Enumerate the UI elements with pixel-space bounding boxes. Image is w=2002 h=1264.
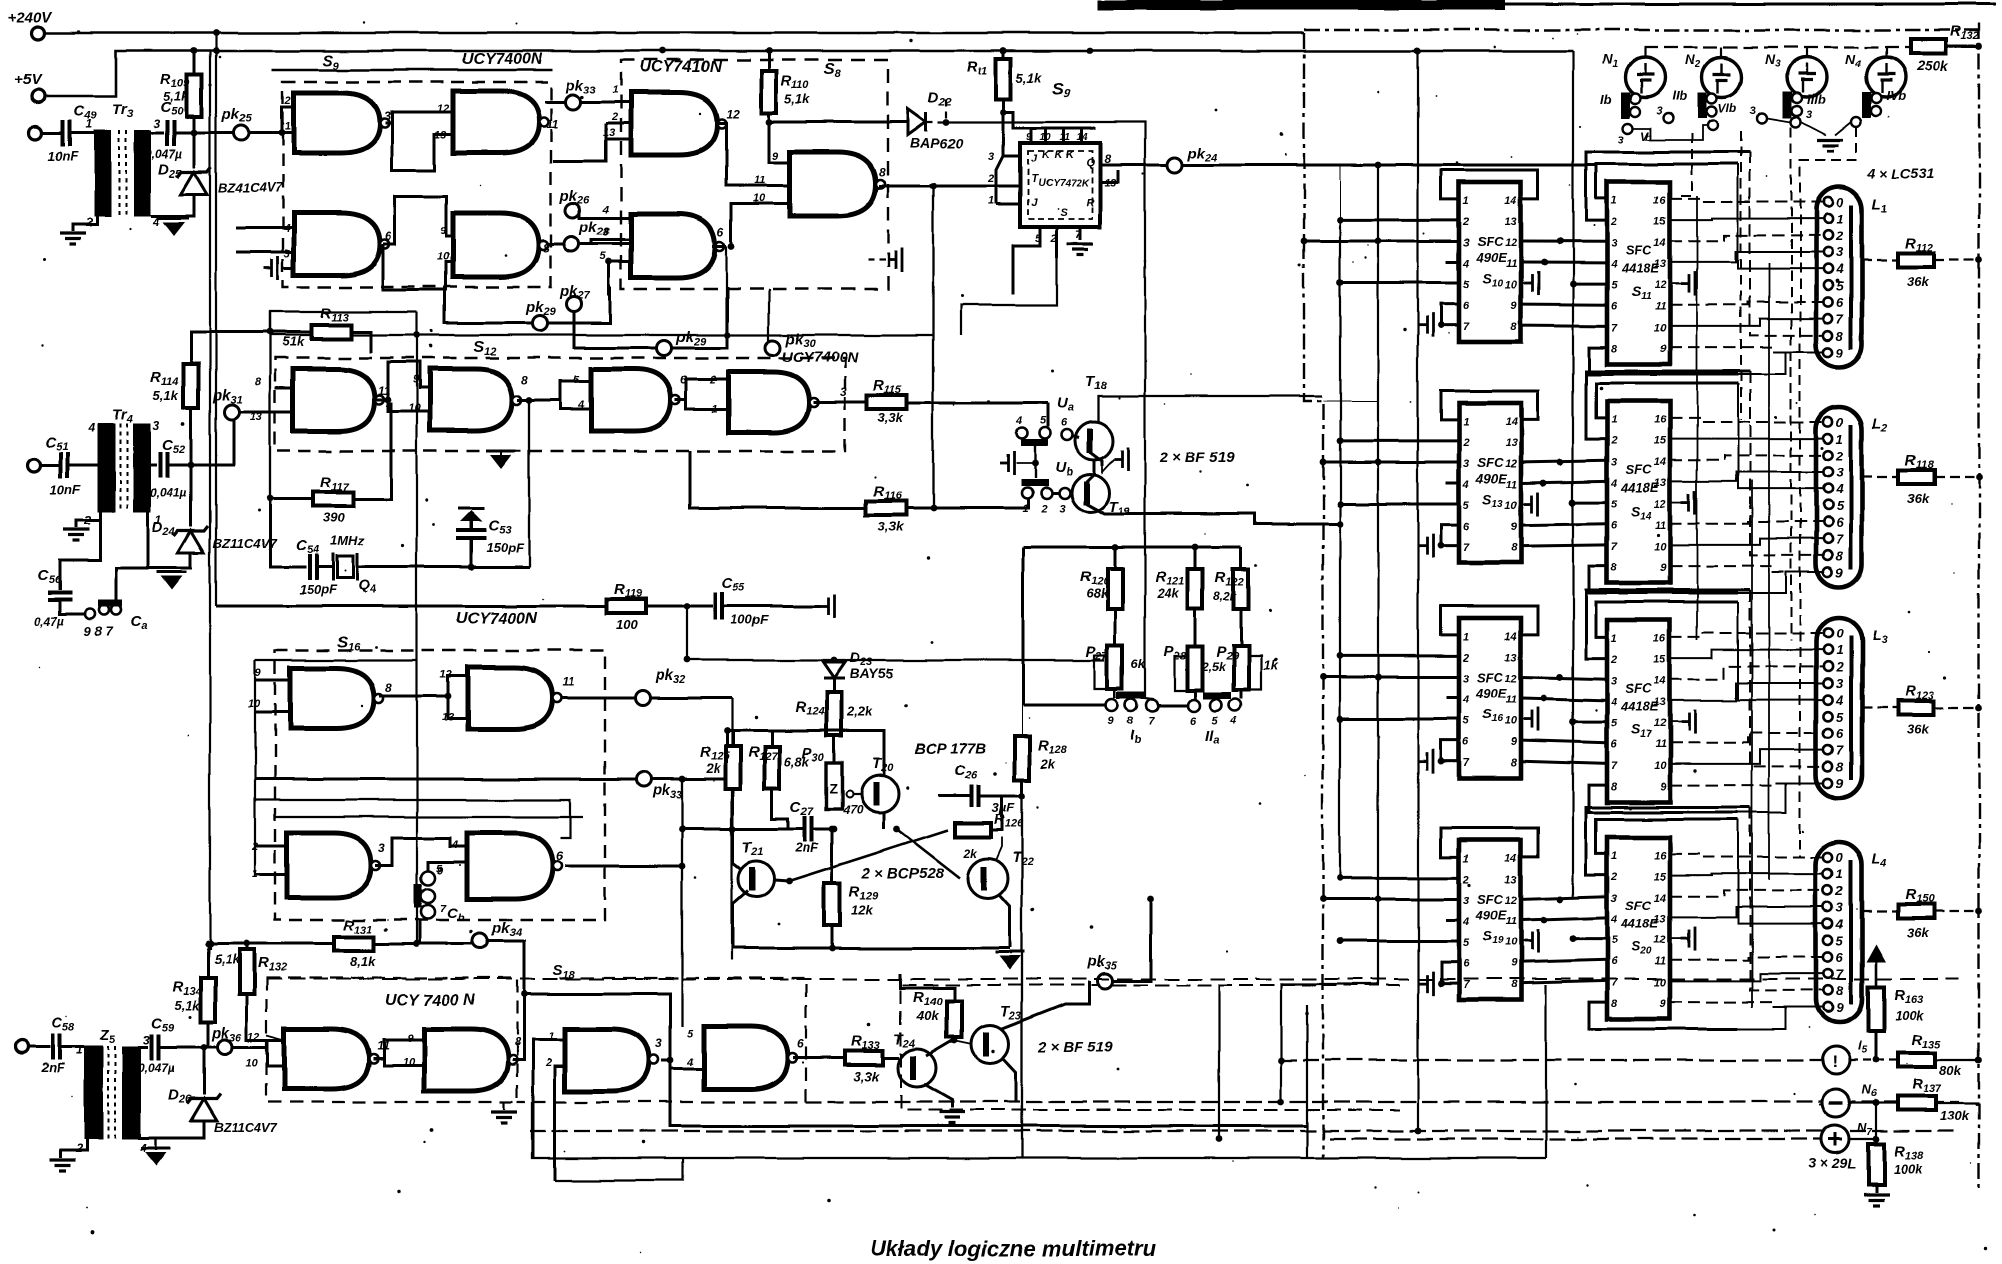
NAND gate S9c — [294, 213, 380, 275]
svg-text:K: K — [1066, 149, 1075, 161]
wire pk29 up — [671, 287, 727, 348]
ground S11 pin12 — [1681, 272, 1695, 296]
svg-text:4: 4 — [686, 1057, 693, 1069]
wire bus x1378 — [1377, 165, 1379, 984]
wire S8a in13 — [606, 138, 631, 141]
ground S17 pin12 — [1681, 710, 1695, 734]
wire S19 pin4 stub — [1446, 919, 1459, 922]
svg-text:5,1k: 5,1k — [163, 89, 189, 104]
svg-text:3: 3 — [1656, 105, 1662, 117]
connector IVb — [1862, 92, 1871, 118]
wire S14 pin5 — [1573, 501, 1607, 504]
svg-text:9: 9 — [1836, 776, 1844, 791]
wire — [868, 259, 888, 261]
svg-text:2: 2 — [1462, 652, 1469, 664]
svg-text:3: 3 — [1059, 503, 1065, 515]
wire S18c out — [661, 1060, 670, 1063]
svg-text:5: 5 — [1611, 935, 1618, 947]
wire S13 pin5 — [1340, 503, 1459, 506]
NAND gate S18c — [565, 1029, 649, 1091]
svg-text:SFC: SFC — [1477, 455, 1504, 470]
ground connectors — [1817, 140, 1843, 151]
svg-text:7: 7 — [1611, 322, 1618, 334]
svg-text:2,5k: 2,5k — [1201, 659, 1227, 673]
node pk25 — [234, 126, 249, 141]
wire — [1670, 633, 1823, 637]
svg-text:14: 14 — [1654, 456, 1666, 468]
wire — [255, 711, 290, 714]
svg-text:2: 2 — [1610, 435, 1617, 447]
svg-text:2k: 2k — [963, 846, 979, 860]
wire — [1670, 199, 1823, 202]
wire loop into L3 — [1738, 602, 1823, 700]
wire Rt1 to ff pin3 — [1003, 143, 1020, 156]
svg-text:BZ41C4V7: BZ41C4V7 — [218, 180, 283, 195]
svg-text:14: 14 — [1654, 237, 1666, 249]
svg-text:1: 1 — [1611, 633, 1617, 645]
wire D22 to contact 7 — [946, 122, 1152, 699]
ground S19 pin10 — [1524, 929, 1538, 953]
wire S8a in2 feed — [553, 123, 606, 161]
wire pk25 to gate S9a pin1 — [282, 132, 294, 135]
wire bottom bus y1131 — [530, 1130, 1959, 1132]
svg-text:7: 7 — [1611, 760, 1618, 772]
svg-text:490E: 490E — [1475, 471, 1507, 486]
ground T22 — [999, 956, 1021, 970]
svg-text:8: 8 — [1611, 343, 1618, 355]
wire to T21 base — [733, 829, 741, 869]
wire +240V rail — [44, 32, 1304, 35]
resistor R137 — [1898, 1096, 1936, 1110]
wire plus node up — [1875, 1103, 1877, 1139]
svg-text:13: 13 — [1505, 437, 1517, 449]
svg-text:8: 8 — [879, 165, 886, 179]
terminal current (!) — [1822, 1046, 1850, 1074]
svg-text:5: 5 — [1463, 500, 1470, 512]
svg-text:5: 5 — [1040, 415, 1047, 427]
svg-text:5: 5 — [1836, 498, 1844, 513]
wire — [1670, 347, 1823, 352]
resistor R134 — [201, 978, 216, 1022]
wire S16.9 to S17.6 — [1521, 740, 1607, 743]
IC SFC4418E S17 — [1607, 620, 1670, 802]
wire mid rail left — [216, 605, 606, 608]
svg-text:6: 6 — [797, 1037, 804, 1051]
wire S13.9 to S14.6 — [1521, 524, 1607, 525]
svg-text:10: 10 — [1654, 541, 1667, 553]
wire junction to pk31 — [191, 419, 234, 465]
svg-text:7: 7 — [1836, 743, 1844, 758]
svg-text:4: 4 — [1015, 415, 1022, 427]
svg-text:6: 6 — [1836, 295, 1844, 310]
svg-text:490E: 490E — [1475, 686, 1507, 701]
wire R110 to S8c in9 — [769, 113, 790, 163]
resistor R126 — [955, 823, 991, 837]
svg-text:4418E: 4418E — [1620, 916, 1659, 931]
svg-text:6: 6 — [1836, 515, 1844, 530]
wire loop2 into L1 — [1750, 152, 1823, 335]
svg-text:9: 9 — [1511, 958, 1518, 970]
wire S16 pin3 — [1323, 675, 1459, 678]
svg-text:14: 14 — [1505, 853, 1517, 865]
wire — [255, 873, 287, 876]
svg-text:2 × BF 519: 2 × BF 519 — [1159, 449, 1235, 466]
wire — [1644, 47, 1646, 57]
wire S18d in4 — [670, 1068, 704, 1071]
wire divider left — [1022, 547, 1025, 705]
wire S18b out — [512, 994, 524, 1060]
terminal input 1 — [30, 127, 43, 140]
wire S13.11 to S14.4 — [1521, 481, 1607, 483]
wire — [1670, 854, 1823, 857]
IC SFC490E S10 — [1459, 182, 1521, 342]
svg-text:8: 8 — [521, 373, 528, 387]
svg-text:4: 4 — [1835, 917, 1844, 932]
svg-text:8: 8 — [1836, 759, 1844, 774]
wire pk29 left — [445, 287, 533, 323]
wire S17 pin2 loop — [1586, 590, 1750, 658]
connector Ca pins 9 8 7 — [85, 609, 95, 619]
svg-text:2: 2 — [1835, 659, 1844, 674]
svg-text:1: 1 — [1836, 432, 1843, 447]
wire S18d out to R133 — [793, 1057, 847, 1060]
wire R117 left — [270, 498, 313, 501]
svg-text:13: 13 — [1505, 874, 1517, 886]
wire S19 pin3 — [1323, 897, 1459, 900]
wire pk31 to S12a — [239, 411, 293, 414]
svg-text:3: 3 — [1611, 456, 1617, 468]
wire pk34 right — [487, 941, 524, 994]
ground S20 pin12 — [1681, 927, 1695, 951]
wire S9a out to S9b in12 — [385, 112, 453, 123]
svg-text:4418E: 4418E — [1620, 480, 1659, 495]
wire maze vertical 2 — [1768, 263, 1770, 880]
svg-text:5,1k: 5,1k — [214, 952, 240, 967]
wire — [1850, 1059, 1898, 1061]
NAND gate S9b — [453, 91, 539, 153]
svg-text:16: 16 — [1654, 633, 1667, 645]
svg-text:6: 6 — [1836, 950, 1844, 965]
svg-text:2k: 2k — [705, 761, 721, 776]
svg-text:14: 14 — [1654, 892, 1666, 904]
NAND gate S12a — [293, 369, 375, 431]
wire — [1670, 874, 1823, 875]
wire conn drop 1 — [1680, 133, 1692, 196]
svg-text:SFC: SFC — [1626, 243, 1653, 258]
wire T22 emitter down — [999, 894, 1010, 948]
wire S8a in2 — [606, 122, 631, 125]
zener diode — [181, 172, 207, 194]
wire R109 bottom — [193, 117, 196, 133]
svg-text:8: 8 — [1611, 562, 1618, 574]
wire S12b to S12c — [529, 381, 591, 400]
ground D26 arrow — [145, 1152, 167, 1166]
wire loop into L1 — [1738, 164, 1823, 269]
svg-text:15: 15 — [1654, 435, 1667, 447]
wire — [1240, 547, 1243, 569]
capacitor C51 — [61, 452, 68, 478]
wire R127 down — [772, 789, 788, 829]
svg-text:7: 7 — [1148, 715, 1155, 727]
svg-text:1: 1 — [1463, 853, 1469, 865]
resistor R163 — [1868, 987, 1884, 1031]
svg-text:11: 11 — [1655, 739, 1666, 751]
node pk30 — [766, 341, 781, 356]
wire — [1862, 476, 1898, 478]
svg-text:1: 1 — [1463, 416, 1469, 428]
wire pk32 right — [651, 697, 732, 700]
resistor R129 — [824, 883, 840, 925]
wire D22 dashes — [926, 98, 946, 122]
svg-text:SFC: SFC — [1477, 892, 1504, 907]
terminal plus — [1821, 1125, 1849, 1153]
svg-text:14: 14 — [1505, 631, 1517, 643]
wire S17 pin1 loop — [1596, 602, 1738, 637]
svg-text:UCY7400N: UCY7400N — [462, 51, 543, 68]
svg-text:4: 4 — [1835, 482, 1844, 497]
wire — [1670, 219, 1823, 220]
ground (cap) Ua-Ub — [1000, 451, 1014, 475]
wire R134 bottom — [207, 1022, 210, 1048]
svg-text:6: 6 — [1611, 301, 1618, 313]
svg-text:24k: 24k — [1156, 586, 1179, 601]
svg-text:3: 3 — [1836, 676, 1844, 691]
svg-text:1: 1 — [1611, 414, 1617, 426]
svg-text:BZ11C4V7: BZ11C4V7 — [213, 536, 277, 551]
wire osc bottom — [270, 499, 306, 567]
svg-text:3: 3 — [1611, 675, 1617, 687]
wire S16 latch a — [255, 800, 570, 838]
IC SFC4418E S11 — [1607, 182, 1670, 364]
wire S16 pin6-7 — [1441, 740, 1459, 761]
svg-text:2: 2 — [1610, 654, 1617, 666]
wire — [1045, 128, 1048, 143]
svg-text:5: 5 — [1611, 718, 1618, 730]
svg-text:BAY55: BAY55 — [850, 665, 894, 681]
resistor R128 — [1015, 736, 1030, 780]
svg-text:9: 9 — [1511, 736, 1518, 748]
resistor R110 — [762, 71, 777, 113]
wire pk26 to S8b — [580, 210, 609, 218]
NAND gate S18b — [424, 1029, 508, 1091]
wire S16.11 to S17.4 — [1521, 698, 1607, 700]
wire — [1934, 707, 1979, 709]
resistor R119 — [606, 599, 646, 613]
wire — [1862, 707, 1898, 709]
wire S16 left bus — [254, 660, 256, 877]
wire R117 right up — [353, 403, 391, 499]
ground S16 pin7 — [1419, 749, 1433, 773]
svg-text:K: K — [1042, 149, 1051, 161]
wire — [40, 464, 60, 467]
svg-text:9: 9 — [1836, 565, 1844, 580]
svg-text:5: 5 — [284, 248, 291, 260]
wire R163 arrow stem — [1875, 958, 1878, 986]
svg-text:6: 6 — [1190, 715, 1197, 727]
svg-text:14: 14 — [1505, 195, 1517, 207]
wire — [732, 731, 735, 748]
wire conn drop 2 — [1740, 131, 1742, 420]
node pk29-b — [657, 341, 672, 356]
svg-text:12k: 12k — [851, 902, 873, 917]
wire +5V rail — [45, 51, 1573, 96]
node pk27 — [567, 297, 582, 312]
svg-text:2: 2 — [1050, 233, 1057, 245]
svg-text:7: 7 — [1463, 542, 1470, 554]
svg-text:3: 3 — [1463, 673, 1469, 685]
wire — [470, 538, 473, 567]
svg-text:3: 3 — [1836, 465, 1844, 480]
resistor Rt1 — [996, 59, 1011, 99]
wire Tr4 ground leg — [76, 512, 100, 527]
wire T22 collector — [996, 837, 1002, 860]
svg-text:100k: 100k — [1895, 1008, 1925, 1023]
zener diode — [178, 531, 204, 553]
svg-text:9: 9 — [772, 151, 779, 163]
svg-text:3 × 29L: 3 × 29L — [1808, 1155, 1856, 1171]
wire S13 pin6-7 — [1441, 525, 1459, 546]
NAND gate S9a — [294, 93, 380, 153]
wire R116 to Ub — [906, 498, 1028, 508]
svg-text:1: 1 — [1463, 195, 1469, 207]
transformer Tr5 — [84, 1046, 103, 1139]
node pk36 — [218, 1040, 233, 1055]
wire — [1114, 547, 1117, 569]
wire — [1936, 1059, 1979, 1061]
potentiometer P30 — [826, 763, 842, 809]
svg-text:3: 3 — [1611, 237, 1617, 249]
wire pk28 to S8b — [579, 240, 609, 244]
wire S8b out — [712, 245, 726, 248]
transistor T18 — [1075, 422, 1113, 460]
wire S20 pin8 loop — [1589, 1002, 1738, 1029]
wire — [1670, 666, 1823, 679]
svg-text:3: 3 — [1463, 237, 1469, 249]
wire — [1885, 47, 1887, 57]
IC SFC490E S13 — [1459, 403, 1521, 563]
node pk31 — [225, 405, 240, 420]
svg-text:4: 4 — [1610, 258, 1617, 270]
wire bus x732 — [731, 698, 733, 960]
wire — [682, 697, 732, 699]
svg-text:1: 1 — [285, 121, 291, 133]
svg-text:12: 12 — [1654, 935, 1666, 947]
svg-text:1: 1 — [86, 117, 93, 131]
svg-text:8: 8 — [514, 1035, 521, 1049]
svg-text:4: 4 — [1462, 694, 1469, 706]
svg-text:8: 8 — [1127, 715, 1134, 727]
resistor R114 — [184, 364, 199, 408]
NAND gate S12d — [729, 372, 809, 432]
svg-text:250k: 250k — [1916, 57, 1949, 73]
svg-text:6: 6 — [385, 229, 392, 243]
wire pk33 to S8 — [580, 101, 621, 104]
wire lamp rail — [1644, 46, 1910, 48]
svg-text:8: 8 — [1836, 328, 1844, 343]
svg-text:!: ! — [1832, 1052, 1838, 1071]
ground S14 pin12 — [1681, 491, 1695, 515]
wire to R116 — [690, 451, 866, 508]
svg-text:6: 6 — [1836, 726, 1844, 741]
svg-text:4: 4 — [87, 421, 95, 435]
wire conn drop 3 — [1790, 127, 1792, 640]
svg-text:11: 11 — [1506, 694, 1517, 706]
svg-text:8,2k: 8,2k — [1213, 589, 1238, 603]
wire S8b in4 — [609, 217, 631, 220]
wire S8a in1 — [621, 101, 631, 104]
wire — [1081, 128, 1084, 143]
wire S10 pin6-7 — [1441, 304, 1459, 325]
connector Ib IIa contacts — [1106, 699, 1118, 711]
IC SFC490E S16 — [1459, 618, 1521, 778]
svg-text:6: 6 — [1061, 417, 1068, 429]
wire bus x1340 — [1339, 220, 1341, 880]
wire R110 to D22 — [769, 121, 908, 124]
ground S10 pin7 — [1419, 313, 1433, 337]
wire — [1670, 974, 1823, 981]
wire C59 right — [159, 1046, 218, 1049]
svg-text:0: 0 — [1836, 626, 1844, 641]
svg-text:12: 12 — [1654, 718, 1666, 730]
wire bus to ! terminal — [1281, 1059, 1822, 1061]
wire osc left vert — [269, 312, 271, 511]
ground S13 pin7 — [1419, 534, 1433, 558]
wire R134 top — [207, 944, 210, 978]
svg-text:2: 2 — [1462, 437, 1469, 449]
node pk35 — [1099, 974, 1114, 989]
svg-text:1: 1 — [1836, 643, 1843, 658]
capacitor C49 — [63, 120, 70, 146]
ground (cap) T18 — [1114, 447, 1128, 471]
wire Tr5 ground leg — [61, 1139, 87, 1158]
wire — [1194, 547, 1197, 569]
wire ff Q to pk24 — [1100, 164, 1168, 167]
svg-text:12: 12 — [1505, 895, 1517, 907]
svg-text:11: 11 — [1655, 301, 1666, 313]
svg-text:2: 2 — [1610, 871, 1617, 883]
wire — [901, 985, 1400, 1110]
svg-text:14: 14 — [1077, 132, 1089, 143]
connector Vb row — [1623, 123, 1633, 133]
wire — [1670, 319, 1823, 326]
svg-text:7: 7 — [1463, 321, 1470, 333]
svg-text:6: 6 — [1463, 958, 1470, 970]
resistor R113 — [311, 325, 351, 339]
svg-text:IIb: IIb — [1672, 88, 1687, 103]
wire S9c out to S9d in9 — [383, 196, 453, 244]
resistor R140 — [947, 1001, 962, 1037]
resistor R109 — [187, 75, 202, 117]
svg-text:4: 4 — [602, 204, 609, 216]
svg-text:1: 1 — [1611, 195, 1617, 207]
wire S12a in top — [275, 387, 293, 390]
svg-text:VIb: VIb — [1718, 101, 1737, 115]
wire S12a out to S12b — [376, 362, 430, 400]
wire — [255, 659, 417, 661]
wire S16 pin5 — [1340, 718, 1459, 721]
svg-text:7: 7 — [1611, 541, 1618, 553]
wire — [1572, 51, 1574, 898]
wire — [1175, 656, 1195, 690]
wire pk33 right — [651, 778, 732, 781]
svg-text:3µF: 3µF — [992, 800, 1016, 815]
svg-text:150pF: 150pF — [486, 540, 525, 555]
wire — [1670, 283, 1681, 285]
svg-text:3: 3 — [1463, 458, 1469, 470]
wire pk28 right — [579, 230, 640, 244]
ground S13 pin10 — [1524, 492, 1538, 516]
wire divider top — [1023, 546, 1241, 549]
